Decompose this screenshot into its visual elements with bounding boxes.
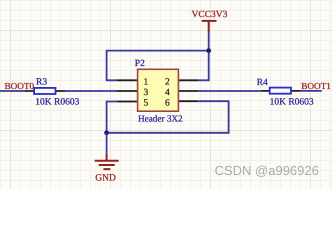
wire GND junction to ground symbol <box>106 133 108 154</box>
power port VCC3V3 <box>192 10 228 33</box>
svg-text:3: 3 <box>144 88 149 98</box>
pin 5 <box>117 101 138 103</box>
resistor R3 <box>25 78 80 108</box>
svg-text:CSDN @a996926: CSDN @a996926 <box>215 163 319 178</box>
pin 3 <box>117 90 138 92</box>
pin 6 <box>178 100 197 102</box>
svg-text:10K R0603: 10K R0603 <box>270 98 314 108</box>
pin 4 <box>178 90 198 92</box>
wire BOOT0 net to R3 <box>0 90 25 92</box>
wire VCC3V3 stem to junction <box>208 33 210 51</box>
svg-text:4: 4 <box>165 88 170 98</box>
svg-text:10K R0603: 10K R0603 <box>35 97 79 107</box>
body P2 <box>138 69 179 111</box>
resistor R4 <box>257 78 314 108</box>
svg-text:P2: P2 <box>135 59 145 69</box>
svg-text:2: 2 <box>165 77 170 87</box>
svg-text:GND: GND <box>95 174 116 184</box>
wire R4 to BOOT1 net <box>300 90 321 92</box>
wire junction to P2 pin1 (left-down route) <box>107 51 209 81</box>
wire P2 pin4 to R4 <box>198 90 261 92</box>
pin 1 <box>117 79 138 81</box>
svg-text:5: 5 <box>144 99 149 109</box>
wire P2 pin5 down to GND junction <box>107 102 117 133</box>
svg-text:R4: R4 <box>257 78 268 88</box>
svg-text:BOOT1: BOOT1 <box>301 81 331 91</box>
svg-text:VCC3V3: VCC3V3 <box>192 10 228 20</box>
svg-text:6: 6 <box>165 99 170 109</box>
pin 2 <box>178 79 198 81</box>
ground GND <box>95 154 119 184</box>
wire P2 pin6 down-around to GND junction <box>107 101 229 133</box>
svg-text:BOOT0: BOOT0 <box>5 81 35 91</box>
wire junction down to P2 pin2 <box>198 51 209 81</box>
wire R3 to P2 pin3 <box>65 90 117 92</box>
svg-text:1: 1 <box>144 77 149 87</box>
svg-text:R3: R3 <box>36 78 47 88</box>
junction node GND <box>104 130 109 135</box>
junction node VCC <box>206 48 211 53</box>
header P2 Header 3X2 <box>117 59 198 124</box>
svg-text:Header 3X2: Header 3X2 <box>138 114 183 124</box>
